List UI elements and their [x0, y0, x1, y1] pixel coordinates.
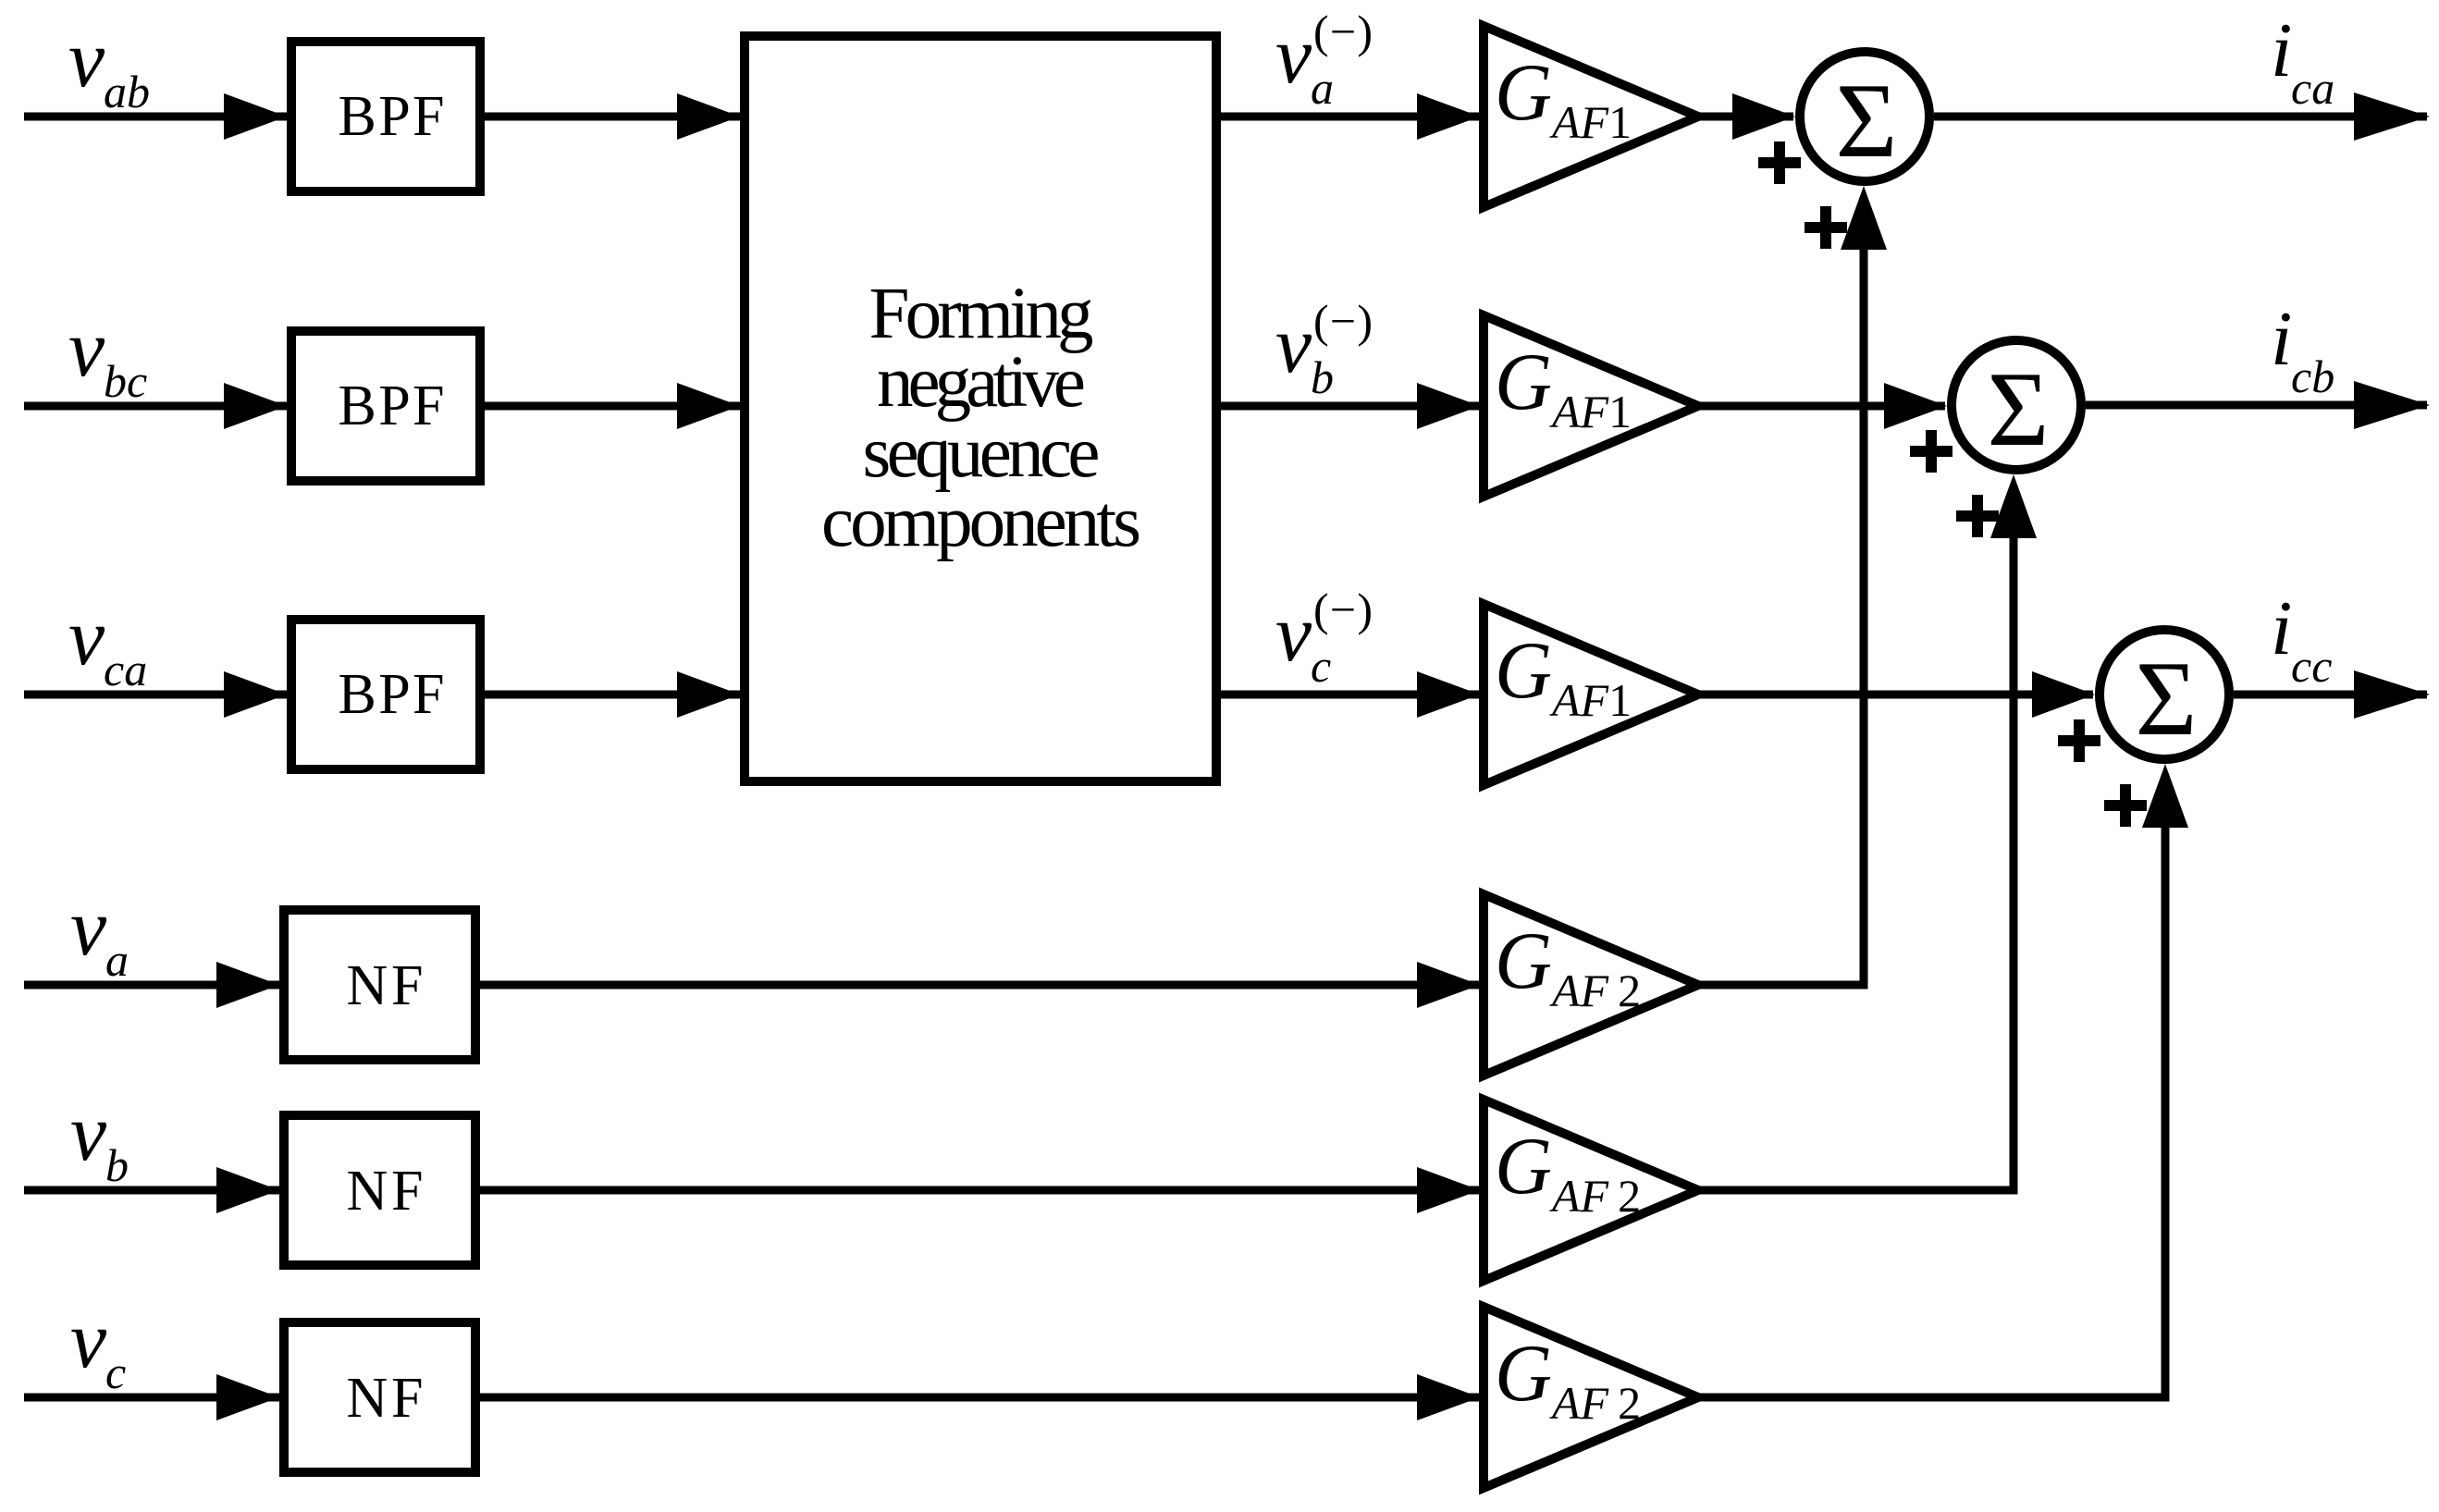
wire output i_cc: [2234, 691, 2427, 699]
wire output i_ca: [1934, 113, 2427, 121]
plus sign S1 vertical input: [1805, 206, 1847, 249]
arrowhead into G_AF1 amp 2: [1417, 383, 1480, 429]
svg-text:G: G: [1495, 1122, 1552, 1211]
arrowhead into sum 1: [1732, 93, 1795, 140]
amplifier G_AF1 #2: [1484, 315, 1698, 497]
svg-text:b: b: [105, 1139, 129, 1191]
summing junction S1: [1800, 52, 1929, 181]
arrowhead into G_AF1 amp 3: [1417, 671, 1480, 718]
wire BPF3 to forming box: [485, 691, 742, 699]
arrowhead into G_AF2 amp 3: [1417, 1374, 1480, 1420]
block forming negative sequence components: [745, 36, 1216, 781]
plus sign S3 horizontal input: [2058, 719, 2100, 762]
svg-text:negative: negative: [877, 342, 1086, 423]
svg-text:v: v: [68, 15, 105, 104]
wire G_AF1 #2 to sum: [1697, 402, 1945, 411]
svg-text:v: v: [1275, 11, 1312, 101]
svg-text:v: v: [68, 593, 105, 682]
plus sign S3 vertical input: [2104, 784, 2147, 827]
svg-text:v: v: [68, 304, 105, 394]
svg-text:ab: ab: [104, 66, 150, 117]
wire input row3: [24, 691, 289, 699]
plus sign S2 vertical input: [1956, 495, 1999, 537]
svg-text:(−): (−): [1313, 6, 1373, 57]
svg-text:ca: ca: [2291, 62, 2334, 114]
svg-text:Σ: Σ: [1836, 62, 1898, 179]
svg-text:BPF: BPF: [339, 85, 445, 148]
arrowhead into sum 3 from below: [2142, 764, 2188, 828]
wire input row6: [24, 1394, 281, 1402]
block NF1: [284, 910, 475, 1060]
wire NF1 to G_AF2 amp: [480, 981, 1482, 990]
svg-text:AF 2: AF 2: [1549, 965, 1641, 1016]
wire G_AF2 #1 feed horizontal: [1697, 981, 1864, 990]
svg-text:G: G: [1495, 916, 1552, 1006]
svg-text:NF: NF: [347, 1367, 424, 1430]
arrowhead into G_AF2 amp 2: [1417, 1167, 1480, 1213]
arrowhead into NF3: [216, 1374, 279, 1420]
arrowhead into sum 2: [1884, 383, 1947, 429]
svg-text:v: v: [70, 1296, 107, 1385]
wire BPF1 to forming box: [485, 113, 742, 121]
wire forming box out row1: [1221, 113, 1482, 121]
svg-text:G: G: [1495, 1329, 1552, 1419]
amplifier G_AF1 #1: [1484, 26, 1698, 207]
arrowhead into G_AF1 amp 1: [1417, 93, 1480, 140]
wire output i_cb: [2086, 401, 2427, 410]
wire BPF2 to forming box: [485, 402, 742, 411]
block BPF2: [291, 331, 480, 481]
arrowhead into G_AF2 amp 1: [1417, 962, 1480, 1008]
svg-text:BPF: BPF: [339, 663, 445, 726]
svg-text:v: v: [70, 883, 107, 973]
svg-text:i: i: [2271, 296, 2292, 382]
svg-text:cc: cc: [2291, 640, 2332, 692]
svg-text:AF 2: AF 2: [1549, 1170, 1641, 1222]
wire G_AF1 #3 to sum: [1697, 691, 2093, 699]
wire NF3 to G_AF2 amp: [480, 1394, 1482, 1402]
arrowhead into sum 1 from below: [1841, 186, 1887, 250]
wire input row2: [24, 402, 289, 411]
block BPF3: [291, 620, 480, 769]
arrowhead into NF1: [216, 962, 279, 1008]
amplifier G_AF2 #3: [1484, 1307, 1698, 1488]
arrowhead into forming box row1: [677, 93, 740, 140]
svg-text:c: c: [105, 1346, 126, 1398]
amplifier G_AF2 #2: [1484, 1100, 1698, 1281]
wire forming box out row3: [1221, 691, 1482, 699]
svg-text:AF1: AF1: [1549, 674, 1632, 726]
block NF2: [284, 1115, 475, 1265]
block BPF1: [291, 42, 480, 191]
block NF3: [284, 1322, 475, 1472]
svg-text:v: v: [70, 1088, 107, 1178]
svg-text:G: G: [1495, 48, 1552, 138]
arrowhead into NF2: [216, 1167, 279, 1213]
arrowhead into BPF1: [224, 93, 287, 140]
svg-text:i: i: [2271, 7, 2292, 93]
svg-text:Σ: Σ: [1988, 350, 2050, 468]
svg-text:i: i: [2271, 585, 2292, 671]
wire G_AF2 #1 feed vertical: [1860, 241, 1868, 990]
summing junction S2: [1952, 340, 2081, 470]
svg-text:b: b: [1311, 351, 1334, 403]
arrowhead into BPF2: [224, 383, 287, 429]
svg-text:AF1: AF1: [1549, 386, 1632, 437]
svg-text:NF: NF: [347, 1160, 424, 1223]
wire G_AF2 #2 feed vertical: [2010, 530, 2018, 1195]
wire G_AF2 #2 feed horizontal: [1697, 1186, 2014, 1195]
svg-text:(−): (−): [1313, 295, 1373, 347]
svg-text:(−): (−): [1313, 584, 1373, 635]
svg-text:a: a: [105, 934, 129, 986]
plus sign S2 horizontal input: [1910, 430, 1952, 473]
svg-text:v: v: [1275, 589, 1312, 679]
svg-text:G: G: [1495, 626, 1552, 716]
arrowhead into forming box row2: [677, 383, 740, 429]
arrowhead output i_ca: [2354, 92, 2430, 141]
svg-text:cb: cb: [2291, 350, 2334, 402]
arrowhead into sum 3: [2032, 671, 2095, 718]
svg-text:AF1: AF1: [1549, 96, 1632, 148]
svg-text:ca: ca: [104, 644, 147, 695]
svg-text:AF 2: AF 2: [1549, 1377, 1641, 1429]
arrowhead into forming box row3: [677, 671, 740, 718]
svg-text:BPF: BPF: [339, 375, 445, 437]
svg-text:v: v: [1275, 301, 1312, 390]
amplifier G_AF1 #3: [1484, 604, 1698, 785]
wire input row1: [24, 113, 289, 121]
wire input row5: [24, 1186, 281, 1195]
wire G_AF2 #3 feed horizontal: [1697, 1394, 2165, 1402]
svg-text:Σ: Σ: [2136, 640, 2198, 757]
wire G_AF1 #1 to sum: [1697, 113, 1793, 121]
svg-text:components: components: [821, 482, 1141, 562]
plus sign S1 horizontal input: [1758, 141, 1801, 184]
arrowhead output i_cc: [2354, 670, 2430, 719]
svg-text:c: c: [1311, 640, 1331, 692]
wire NF2 to G_AF2 amp: [480, 1186, 1482, 1195]
svg-text:a: a: [1311, 62, 1334, 114]
summing junction S3: [2100, 630, 2229, 759]
arrowhead output i_cb: [2354, 381, 2430, 429]
wire forming box out row2: [1221, 402, 1482, 411]
svg-text:G: G: [1495, 338, 1552, 427]
wire G_AF2 #3 feed vertical: [2162, 819, 2170, 1402]
wire input row4: [24, 981, 281, 990]
svg-text:bc: bc: [104, 355, 147, 407]
arrowhead into sum 2 from below: [1990, 474, 2037, 538]
svg-text:NF: NF: [347, 954, 424, 1017]
svg-text:sequence: sequence: [863, 412, 1101, 493]
amplifier G_AF2 #1: [1484, 894, 1698, 1076]
arrowhead into BPF3: [224, 671, 287, 718]
